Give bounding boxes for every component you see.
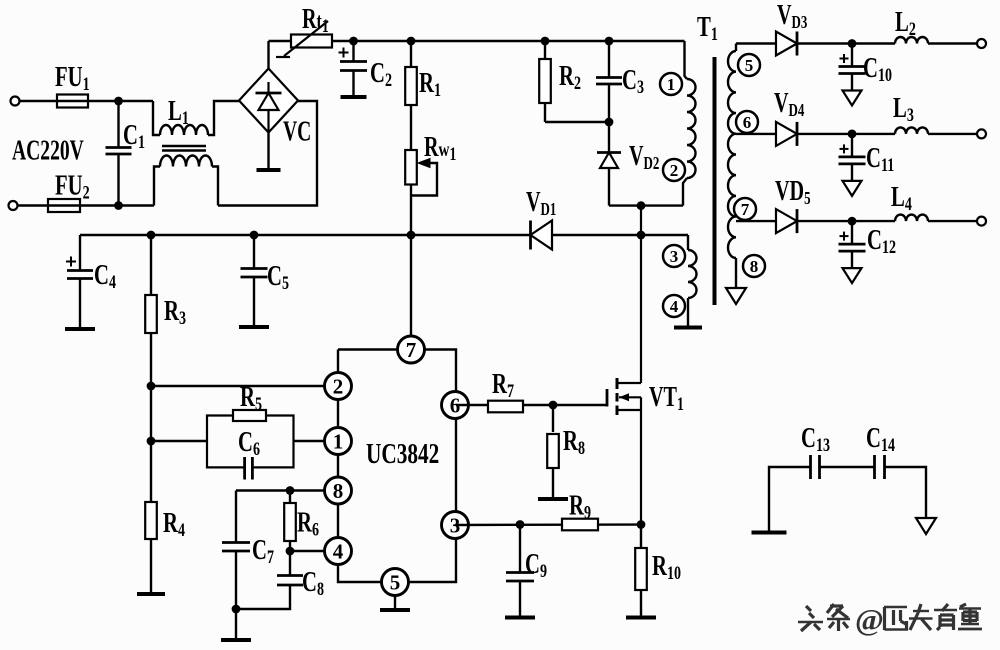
svg-text:3: 3	[670, 247, 679, 266]
svg-text:VC: VC	[283, 116, 311, 147]
svg-text:8: 8	[750, 257, 759, 276]
svg-text:@: @	[855, 602, 884, 637]
svg-text:1: 1	[667, 75, 676, 94]
svg-text:6: 6	[743, 113, 752, 132]
svg-text:4: 4	[670, 297, 679, 316]
svg-text:2: 2	[670, 161, 679, 180]
svg-text:2: 2	[333, 375, 344, 399]
svg-text:7: 7	[406, 338, 417, 362]
svg-text:5: 5	[745, 56, 754, 75]
svg-text:4: 4	[333, 540, 344, 564]
svg-text:7: 7	[741, 200, 750, 219]
svg-text:5: 5	[390, 571, 401, 595]
svg-text:1: 1	[333, 430, 344, 454]
svg-text:8: 8	[333, 479, 344, 503]
svg-text:UC3842: UC3842	[366, 439, 439, 469]
svg-text:AC220V: AC220V	[12, 135, 84, 166]
